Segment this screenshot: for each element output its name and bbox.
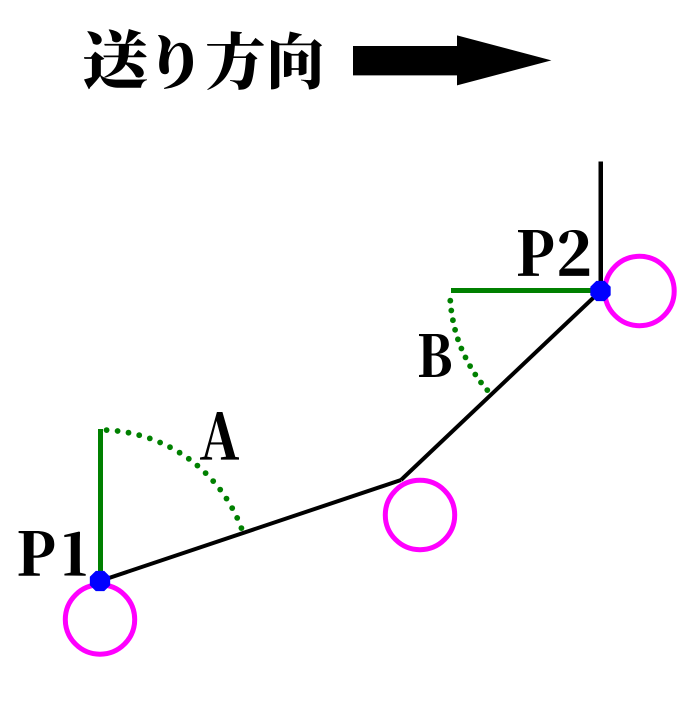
- label P1: [19, 531, 55, 576]
- tool circle at P1: [65, 585, 134, 654]
- angle arc A (dotted): [104, 427, 245, 531]
- green horizontal reference at P2: [451, 288, 601, 293]
- label A: [200, 412, 239, 460]
- title kana り: [158, 35, 193, 89]
- vertical reference line above P2: [598, 162, 603, 292]
- green vertical reference at P1: [98, 429, 103, 581]
- angle arc B (dotted): [447, 298, 490, 393]
- tool circle at corner: [385, 480, 454, 549]
- point marker P1: [90, 571, 110, 591]
- title kanji 向: [271, 32, 322, 90]
- point marker P2: [590, 281, 610, 301]
- label B: [419, 334, 451, 377]
- feed-direction arrow: [353, 35, 551, 85]
- title kanji 送: [84, 29, 147, 89]
- toolpath segment corner to P2: [401, 291, 601, 480]
- toolpath segment P1 to corner: [100, 480, 401, 581]
- tool circle at P2: [605, 256, 674, 325]
- title kanji 方: [207, 31, 264, 90]
- label P2: [518, 230, 553, 276]
